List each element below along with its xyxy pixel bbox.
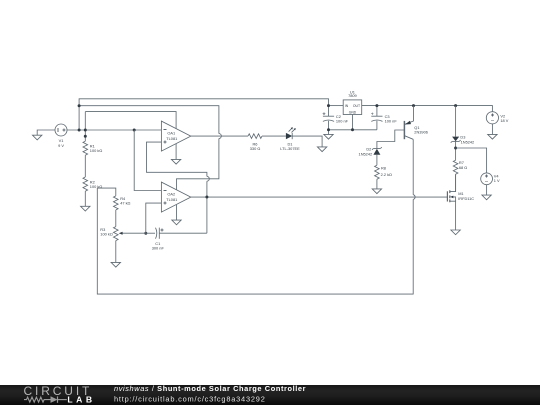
voltage source V1 — [55, 124, 67, 136]
capacitor C3 — [371, 106, 383, 130]
wire — [191, 196, 448, 198]
wire — [177, 139, 219, 190]
resistor R8 — [375, 165, 380, 179]
wire — [97, 188, 116, 196]
wire — [67, 129, 161, 131]
potentiometer R3 — [114, 227, 146, 241]
wire — [115, 210, 117, 227]
wire — [146, 203, 162, 233]
node B — [144, 196, 208, 235]
wire — [191, 135, 248, 137]
capacitor C2 — [323, 112, 335, 134]
ground — [317, 147, 326, 152]
wire — [79, 106, 219, 134]
voltage source V4 — [481, 173, 493, 195]
ground — [324, 134, 333, 139]
wire — [84, 191, 86, 206]
ground — [488, 134, 497, 139]
wire — [412, 139, 414, 194]
node C — [327, 104, 457, 131]
svg-text:LAB: LAB — [67, 395, 95, 405]
zener D2 — [372, 147, 382, 165]
MOSFET M1 — [447, 174, 455, 230]
wire — [207, 176, 209, 181]
wire — [175, 144, 177, 160]
resistor R1 — [83, 141, 88, 155]
wire — [85, 112, 176, 129]
wire — [84, 112, 86, 142]
ground — [451, 230, 460, 235]
wire — [176, 205, 178, 220]
ground — [172, 220, 181, 225]
wire — [413, 195, 415, 200]
svg-text:http://circuitlab.com/c/c3fcg8: http://circuitlab.com/c/c3fcg8a343292 — [114, 394, 266, 403]
ground — [33, 130, 55, 140]
wire — [329, 105, 344, 107]
node D — [454, 147, 457, 150]
label U1 pins — [345, 104, 360, 115]
resistor R7 — [453, 160, 458, 174]
wire — [84, 155, 86, 177]
op-amp OA2 — [161, 182, 190, 212]
wire — [206, 181, 208, 233]
wire — [376, 179, 378, 189]
wire — [79, 99, 328, 130]
ground — [171, 159, 180, 164]
zener D3 — [451, 106, 461, 161]
wire — [115, 241, 117, 263]
resistor R6 — [248, 134, 262, 139]
resistor R4 — [114, 196, 119, 210]
op-amp OA1 — [161, 121, 190, 151]
LED D1 — [286, 127, 296, 139]
wire — [456, 148, 487, 173]
wire — [97, 188, 413, 294]
wire — [455, 174, 457, 191]
wire — [352, 115, 354, 130]
wire — [292, 136, 322, 147]
voltage source V2 — [486, 112, 498, 135]
wire — [219, 134, 221, 139]
node A — [78, 104, 136, 138]
wire — [147, 142, 207, 176]
transistor Q1 — [377, 106, 414, 149]
ground — [111, 262, 120, 267]
regulator U1 — [343, 100, 362, 115]
wire — [134, 130, 161, 191]
ground — [482, 195, 491, 200]
wire — [362, 106, 493, 112]
wire — [329, 129, 377, 131]
ground — [372, 189, 381, 194]
ground — [81, 206, 90, 211]
wire — [262, 135, 286, 137]
svg-text:nvishwas / Shunt-mode Solar Ch: nvishwas / Shunt-mode Solar Charge Contr… — [114, 384, 306, 393]
capacitor C1 — [146, 228, 207, 239]
resistor R2 — [83, 177, 88, 191]
